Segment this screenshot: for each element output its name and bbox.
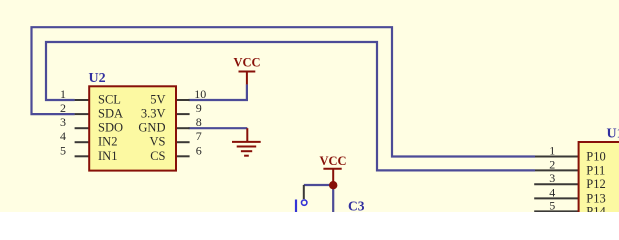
svg-text:C3: C3 [348,199,365,213]
svg-text:4: 4 [549,185,555,199]
svg-text:P12: P12 [586,177,605,191]
svg-text:U1: U1 [607,126,619,141]
svg-text:1: 1 [549,144,555,158]
svg-text:P11: P11 [586,163,605,177]
svg-text:3: 3 [60,115,66,129]
svg-text:5: 5 [549,198,555,212]
svg-text:P14: P14 [586,204,606,212]
svg-text:IN2: IN2 [98,135,117,149]
svg-text:3.3V: 3.3V [141,107,166,121]
svg-text:1: 1 [60,87,66,101]
svg-text:5V: 5V [150,93,165,107]
svg-text:2: 2 [549,157,555,171]
svg-text:VCC: VCC [233,55,260,69]
svg-text:4: 4 [60,129,66,143]
svg-text:P10: P10 [586,150,605,164]
svg-text:2: 2 [60,101,66,115]
svg-text:9: 9 [196,101,202,115]
svg-text:IN1: IN1 [98,149,117,163]
svg-text:3: 3 [549,171,555,185]
svg-text:6: 6 [196,143,202,157]
svg-text:SCL: SCL [98,93,121,107]
svg-text:SDO: SDO [98,121,123,135]
svg-text:P13: P13 [586,191,605,205]
svg-text:10: 10 [194,87,206,101]
svg-text:GND: GND [138,121,165,135]
svg-text:7: 7 [196,129,202,143]
svg-text:U2: U2 [89,71,106,86]
svg-text:SDA: SDA [98,107,123,121]
svg-text:VS: VS [150,135,166,149]
svg-text:CS: CS [150,149,165,163]
svg-text:VCC: VCC [319,154,346,168]
svg-text:8: 8 [196,115,202,129]
svg-text:5: 5 [60,143,66,157]
